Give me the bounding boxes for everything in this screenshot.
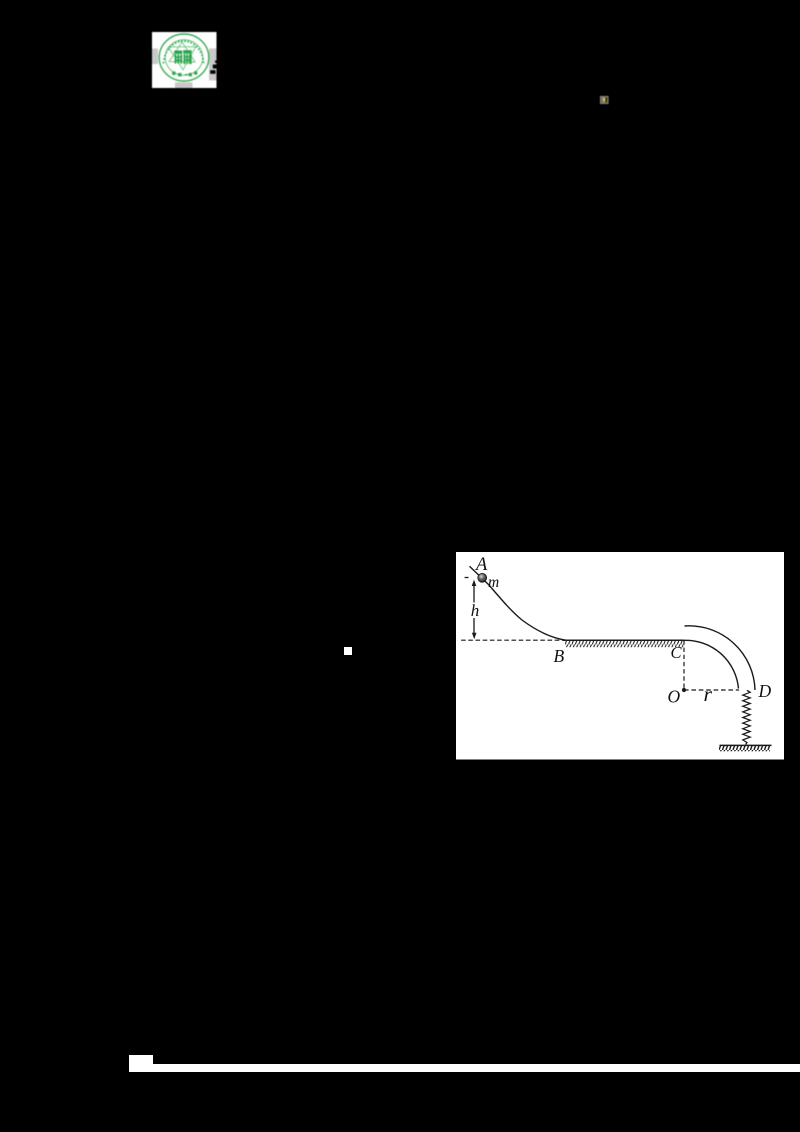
svg-text:D: D — [758, 681, 772, 701]
svg-text:m: m — [488, 574, 499, 591]
svg-text:B: B — [554, 646, 565, 666]
svg-text:C: C — [671, 643, 683, 662]
svg-text:h: h — [471, 601, 480, 620]
svg-text:r: r — [704, 685, 713, 706]
svg-text:A: A — [474, 555, 488, 575]
svg-text:O: O — [668, 687, 681, 707]
